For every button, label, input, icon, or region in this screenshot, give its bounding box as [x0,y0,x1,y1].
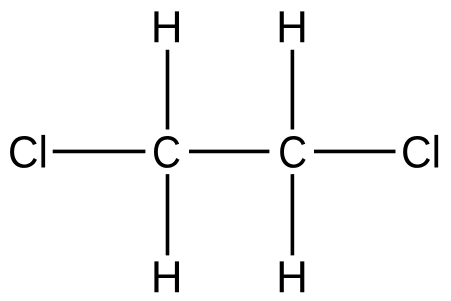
bond C2-Cl2 [314,150,396,154]
bond H1-C1 [166,50,170,130]
atom Cl2 (right chlorine) [403,135,438,168]
bond C1-C2 [189,150,269,154]
atom H3 (top H on C2) [280,11,305,42]
atom H4 (bottom H on C2) [280,261,305,292]
bond C2-H4 [291,174,295,255]
atom H1 (top H on C1) [154,11,179,42]
atom H2 (bottom H on C1) [154,261,179,292]
atom C2 (right carbon) [280,136,305,168]
atom Cl1 (left chlorine) [10,135,45,168]
bond C1-H2 [166,174,170,255]
bond Cl1-C1 [53,150,146,154]
atom C1 (left carbon) [154,136,179,168]
bond H3-C2 [291,50,295,130]
